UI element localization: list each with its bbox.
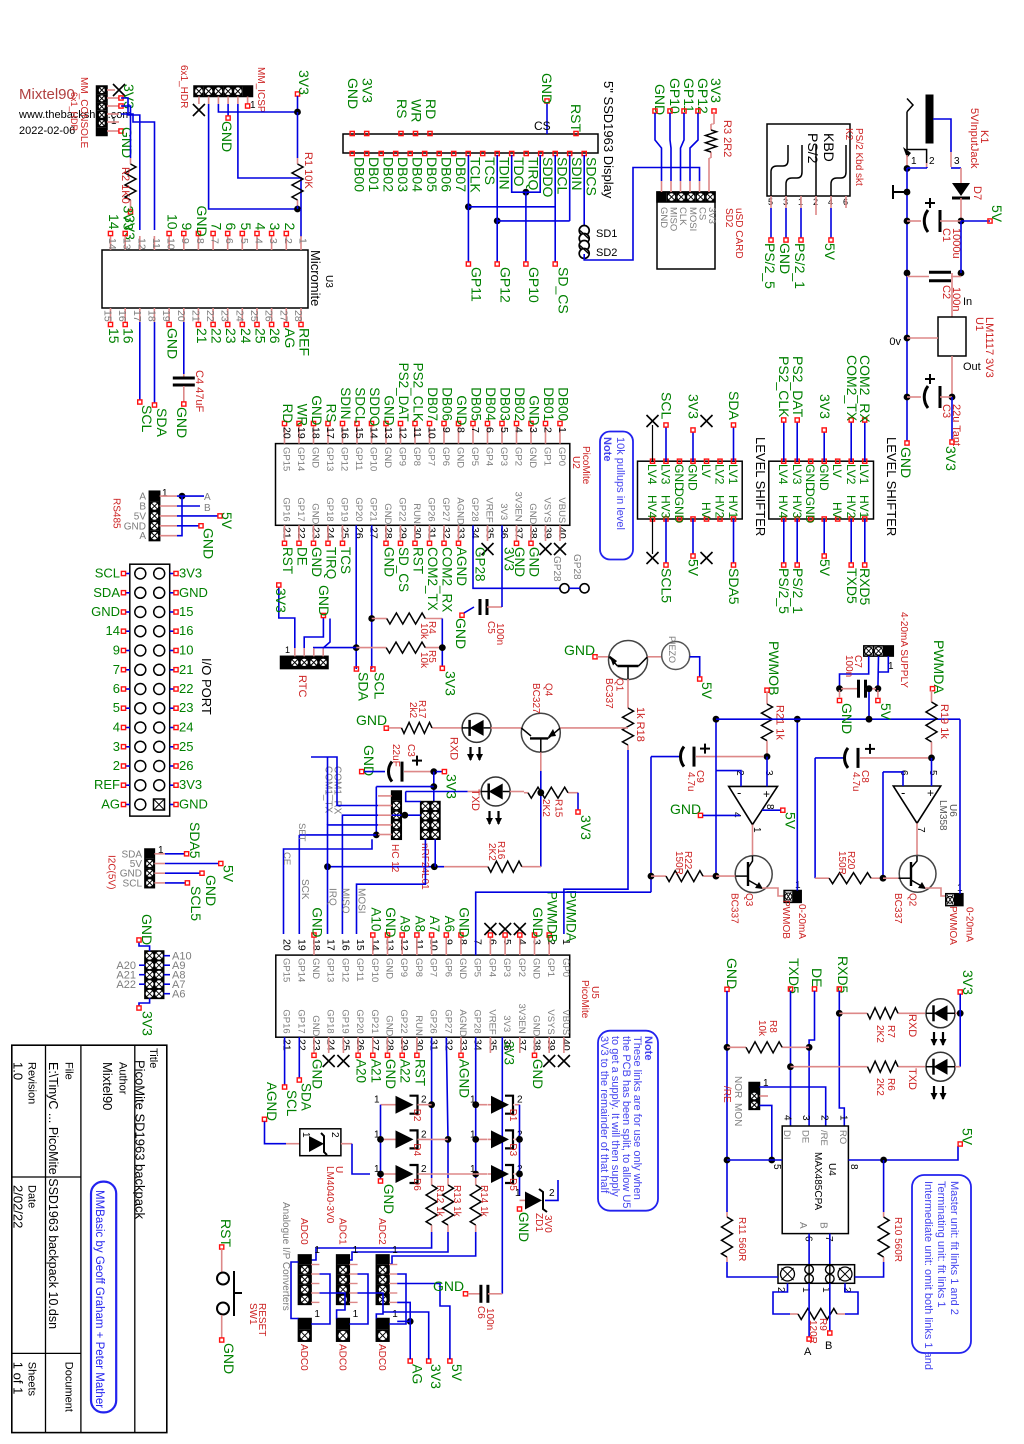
svg-text:20: 20 xyxy=(281,939,293,951)
svg-text:DB03: DB03 xyxy=(395,157,411,192)
svg-text:13: 13 xyxy=(382,427,394,439)
Q2 BC337 xyxy=(916,823,918,855)
svg-text:HV2: HV2 xyxy=(844,495,858,519)
svg-text:GP11: GP11 xyxy=(681,78,697,113)
svg-text:CE: CE xyxy=(281,852,292,865)
svg-text:3V3: 3V3 xyxy=(140,1011,156,1036)
svg-text:20: 20 xyxy=(281,427,293,439)
svg-text:WR: WR xyxy=(409,99,425,122)
svg-text:PS/2_5: PS/2_5 xyxy=(762,243,778,289)
NOR/MON jumper xyxy=(749,1083,759,1110)
svg-text:37: 37 xyxy=(513,527,525,539)
svg-text:LM4040-3V0: LM4040-3V0 xyxy=(324,1166,335,1224)
svg-text:LV4: LV4 xyxy=(645,464,659,485)
R10 560R xyxy=(883,1160,885,1212)
diode D4 xyxy=(393,1138,402,1140)
svg-text:26: 26 xyxy=(179,758,193,773)
I/O PORT 2x13 header xyxy=(130,564,170,816)
svg-text:U3: U3 xyxy=(323,275,334,288)
svg-text:33: 33 xyxy=(457,1039,469,1051)
svg-text:PWMDB: PWMDB xyxy=(545,891,560,943)
svg-text:VREF: VREF xyxy=(484,497,495,523)
link block xyxy=(778,1265,855,1284)
opamp U6b xyxy=(893,786,940,823)
ls1 bottom wires xyxy=(652,519,654,554)
svg-text:A: A xyxy=(804,1346,812,1358)
svg-text:GND: GND xyxy=(174,407,190,438)
U5 pin21 SCL xyxy=(284,1037,286,1085)
R21 1k xyxy=(766,692,768,704)
svg-text:GND: GND xyxy=(91,604,120,619)
svg-text:GND: GND xyxy=(530,907,545,937)
svg-text:DB05: DB05 xyxy=(469,387,484,421)
U3 pin18 SDA wire xyxy=(154,322,156,403)
opamp b inputs xyxy=(931,758,933,786)
U5 pin22 SDA xyxy=(298,1037,300,1078)
svg-text:GND: GND xyxy=(670,801,701,817)
svg-text:15: 15 xyxy=(354,939,366,951)
svg-text:DB01: DB01 xyxy=(366,157,382,192)
svg-text:GND: GND xyxy=(310,907,325,937)
svg-text:MM_CONSOLE: MM_CONSOLE xyxy=(78,77,89,148)
R11/R10 to links xyxy=(727,1262,778,1277)
HC12/nRF wires xyxy=(311,757,378,806)
svg-text:DGND: DGND xyxy=(803,488,817,524)
svg-text:9: 9 xyxy=(440,427,452,433)
svg-text:15: 15 xyxy=(106,328,122,344)
svg-text:2K2: 2K2 xyxy=(486,843,497,861)
svg-text:R3 2R2: R3 2R2 xyxy=(721,120,733,157)
svg-text:24: 24 xyxy=(179,720,193,735)
svg-text:4: 4 xyxy=(513,427,525,433)
svg-text:5: 5 xyxy=(238,223,254,231)
svg-text:3V3: 3V3 xyxy=(502,547,517,571)
svg-text:15: 15 xyxy=(179,604,193,619)
svg-text:SD2: SD2 xyxy=(596,247,617,259)
svg-text:GND: GND xyxy=(453,618,469,649)
svg-text:HV1: HV1 xyxy=(857,495,871,519)
svg-text:AG: AG xyxy=(282,328,298,348)
ground symbol xyxy=(892,185,894,199)
svg-text:GP4: GP4 xyxy=(486,958,497,977)
svg-text:Master unit: fit links 1 and 2: Master unit: fit links 1 and 2 xyxy=(948,1181,960,1315)
svg-text:10: 10 xyxy=(426,427,438,439)
svg-text:GP7: GP7 xyxy=(426,447,437,466)
level shifter 2 (PS2/COM2) xyxy=(769,461,874,519)
svg-text:DE: DE xyxy=(295,547,310,566)
svg-text:4: 4 xyxy=(782,1115,793,1121)
svg-text:GP1: GP1 xyxy=(542,447,553,466)
MM_ICSP 6x1 header xyxy=(194,86,253,97)
R9 120R xyxy=(773,1283,790,1314)
svg-text:GP12: GP12 xyxy=(339,447,350,471)
svg-text:3V3: 3V3 xyxy=(179,566,202,581)
svg-text:I/O PORT: I/O PORT xyxy=(199,658,214,715)
svg-text:R10 560R: R10 560R xyxy=(892,1217,903,1262)
svg-text:150R: 150R xyxy=(836,851,847,875)
svg-text:22uF: 22uF xyxy=(390,744,401,767)
svg-text:-: - xyxy=(901,785,905,800)
svg-text:3V0: 3V0 xyxy=(542,1215,553,1233)
capacitor C3 22u Tant xyxy=(904,394,911,401)
svg-text:5V: 5V xyxy=(686,559,702,577)
svg-text:GP22: GP22 xyxy=(398,1009,409,1033)
svg-text:NOR: NOR xyxy=(732,1076,743,1098)
svg-text:GND: GND xyxy=(165,328,181,359)
svg-text:VREF: VREF xyxy=(486,1009,497,1035)
svg-text:GND: GND xyxy=(455,447,466,468)
svg-text:R12 1k: R12 1k xyxy=(434,1185,445,1218)
svg-text:PS2_DAT: PS2_DAT xyxy=(790,356,806,418)
svg-text:U2: U2 xyxy=(570,456,581,469)
svg-text:10: 10 xyxy=(165,238,177,250)
svg-text:PS/2_1: PS/2_1 xyxy=(790,568,806,614)
svg-text:8: 8 xyxy=(848,1164,859,1170)
svg-text:GP6: GP6 xyxy=(442,958,453,977)
svg-text:REF: REF xyxy=(297,328,313,356)
svg-text:GND: GND xyxy=(724,958,740,989)
svg-text:GND: GND xyxy=(531,958,542,979)
U5 GP27 wire to R13 via D4 xyxy=(446,1037,448,1178)
svg-text:1: 1 xyxy=(162,488,168,499)
svg-text:GP26: GP26 xyxy=(428,1009,439,1033)
svg-text:GND: GND xyxy=(310,447,321,468)
PS/2 pin wires xyxy=(770,208,772,238)
note box: master unit xyxy=(912,1175,971,1353)
svg-text:RUN: RUN xyxy=(411,503,422,524)
svg-text:GP7: GP7 xyxy=(428,958,439,977)
svg-text:GND: GND xyxy=(139,914,155,945)
C9/R22 vertical xyxy=(650,757,652,893)
svg-text:GP8: GP8 xyxy=(411,447,422,466)
svg-text:3: 3 xyxy=(267,223,283,231)
svg-text:RST: RST xyxy=(568,104,584,132)
svg-text:GP13: GP13 xyxy=(325,958,336,982)
svg-text:1: 1 xyxy=(556,427,568,433)
svg-text:5: 5 xyxy=(501,939,513,945)
svg-text:GND: GND xyxy=(898,447,914,478)
svg-text:SCL: SCL xyxy=(139,405,155,432)
svg-text:LV3: LV3 xyxy=(790,464,804,485)
R6 2K2 + TXD LED xyxy=(791,1066,868,1068)
uSD card socket SD2 xyxy=(657,192,715,269)
display RST pin xyxy=(574,131,578,135)
svg-text:GND: GND xyxy=(433,1278,464,1294)
svg-text:26: 26 xyxy=(353,527,365,539)
svg-text:24: 24 xyxy=(233,310,245,322)
svg-text:Mixtel90: Mixtel90 xyxy=(19,86,75,103)
svg-text:LV: LV xyxy=(699,464,713,478)
svg-text:1: 1 xyxy=(392,1245,398,1256)
ADC jumper headers xyxy=(298,1319,311,1342)
svg-text:GND: GND xyxy=(119,127,135,158)
svg-text:A8: A8 xyxy=(412,916,427,933)
svg-text:VBUS: VBUS xyxy=(556,497,567,523)
svg-text:SCL: SCL xyxy=(123,878,143,889)
3V3 label xyxy=(951,397,953,440)
svg-text:VSYS: VSYS xyxy=(545,1009,556,1034)
svg-text:Revision: Revision xyxy=(26,1062,38,1104)
R4 10k pullup SCL xyxy=(368,615,375,622)
svg-text:23: 23 xyxy=(310,1039,322,1051)
RTC pin5 to SCL xyxy=(323,619,330,649)
svg-text:16: 16 xyxy=(179,623,193,638)
svg-text:DB00: DB00 xyxy=(352,157,368,192)
HC12 header xyxy=(392,791,402,839)
svg-text:SDA5: SDA5 xyxy=(187,822,203,859)
svg-text:GP3: GP3 xyxy=(501,958,512,977)
svg-text:27: 27 xyxy=(369,1039,381,1051)
svg-text:SDA: SDA xyxy=(93,585,120,600)
svg-text:5: 5 xyxy=(113,700,120,715)
svg-text:2: 2 xyxy=(282,238,294,244)
R22 150R xyxy=(651,875,666,877)
svg-text:A: A xyxy=(139,531,146,542)
svg-text:6x1_HDR: 6x1_HDR xyxy=(178,65,189,108)
svg-text:BC337: BC337 xyxy=(728,893,739,924)
svg-text:A22: A22 xyxy=(398,1059,413,1083)
svg-text:SD1: SD1 xyxy=(596,228,617,240)
svg-text:21: 21 xyxy=(179,662,193,677)
svg-text:10k: 10k xyxy=(418,623,429,640)
svg-text:25: 25 xyxy=(179,739,193,754)
svg-text:3V3: 3V3 xyxy=(296,70,312,95)
svg-text:16: 16 xyxy=(339,939,351,951)
svg-text:150R: 150R xyxy=(673,851,684,875)
svg-text:SDA: SDA xyxy=(726,391,742,420)
svg-text:TDIN: TDIN xyxy=(497,157,513,190)
svg-text:GP28: GP28 xyxy=(469,497,480,521)
svg-text:6: 6 xyxy=(486,939,498,945)
svg-text:LV4: LV4 xyxy=(776,464,790,485)
svg-text:LEVEL SHIFTER: LEVEL SHIFTER xyxy=(884,437,899,536)
svg-text:DI: DI xyxy=(781,1130,792,1140)
svg-text:1: 1 xyxy=(353,1245,359,1256)
svg-text:COM2_TX: COM2_TX xyxy=(425,547,440,611)
svg-text:GND: GND xyxy=(777,243,793,274)
svg-text:14: 14 xyxy=(106,238,118,250)
svg-text:100n: 100n xyxy=(494,623,505,645)
svg-text:TXD: TXD xyxy=(906,1068,918,1090)
svg-text:MAX485CPA: MAX485CPA xyxy=(812,1152,823,1211)
svg-text:3: 3 xyxy=(113,739,120,754)
RTC pin4 to SDA xyxy=(314,647,356,649)
R7 2K2 + RXD LED xyxy=(839,1012,867,1014)
svg-text:RS485: RS485 xyxy=(111,498,122,529)
svg-text:3V3: 3V3 xyxy=(708,78,724,103)
svg-text:Note: Note xyxy=(601,437,613,461)
svg-text:GP21: GP21 xyxy=(368,497,379,521)
svg-text:24: 24 xyxy=(325,1039,337,1051)
svg-text:5: 5 xyxy=(498,427,510,433)
svg-text:U4: U4 xyxy=(826,1163,837,1176)
ls2 bottom wires xyxy=(783,519,785,563)
svg-text:39: 39 xyxy=(542,527,554,539)
svg-text:PWMOB: PWMOB xyxy=(780,900,791,939)
svg-text:COM2_RX: COM2_RX xyxy=(440,547,455,612)
svg-text:3V3: 3V3 xyxy=(444,774,460,799)
diode D6 xyxy=(393,1173,402,1175)
svg-text:GP15: GP15 xyxy=(281,447,292,471)
svg-text:HV2: HV2 xyxy=(713,495,727,519)
svg-text:RST: RST xyxy=(411,547,426,574)
U4 MAX485CPA xyxy=(782,1126,848,1234)
svg-text:6x1_HDR: 6x1_HDR xyxy=(69,92,79,132)
console pin wires xyxy=(107,89,115,91)
svg-text:RXD: RXD xyxy=(906,1014,918,1037)
svg-text:In: In xyxy=(963,296,972,308)
svg-text:GND: GND xyxy=(539,73,555,104)
svg-text:5V: 5V xyxy=(817,559,833,577)
svg-text:23: 23 xyxy=(310,527,322,539)
svg-text:2K2: 2K2 xyxy=(540,799,551,817)
svg-text:GND: GND xyxy=(658,207,669,228)
svg-text:3V3: 3V3 xyxy=(498,503,509,520)
svg-text:GP10: GP10 xyxy=(526,267,542,303)
svg-text:GND: GND xyxy=(309,395,324,425)
svg-text:GP14: GP14 xyxy=(295,447,306,471)
svg-text:Sheets: Sheets xyxy=(26,1362,38,1397)
svg-text:VBUS: VBUS xyxy=(560,1009,571,1035)
svg-text:GND: GND xyxy=(310,503,321,524)
svg-text:GP28: GP28 xyxy=(473,547,488,582)
C5 100n decoupling xyxy=(460,613,464,617)
svg-text:10: 10 xyxy=(165,214,181,230)
ADC input headers xyxy=(298,1255,311,1305)
svg-text:CLK: CLK xyxy=(677,207,688,226)
svg-text:GP26: GP26 xyxy=(426,497,437,521)
svg-text:12: 12 xyxy=(398,939,410,951)
svg-text:HV4: HV4 xyxy=(776,495,790,519)
svg-text:uSD CARD: uSD CARD xyxy=(733,208,744,259)
svg-text:8: 8 xyxy=(764,804,775,810)
nRF24L01 header xyxy=(421,802,440,840)
R12 R13 R14 1k xyxy=(431,1178,433,1185)
svg-text:1: 1 xyxy=(285,645,290,655)
svg-text:14: 14 xyxy=(368,427,380,439)
svg-text:GND: GND xyxy=(310,1015,321,1036)
svg-text:25: 25 xyxy=(339,1039,351,1051)
U3 pin20 to C4 xyxy=(183,322,185,374)
svg-text:6: 6 xyxy=(223,223,239,231)
U5 GP28 wire to R14 via D6 xyxy=(475,1037,477,1178)
svg-text:28: 28 xyxy=(382,527,394,539)
svg-text:5: 5 xyxy=(238,238,250,244)
svg-text:18: 18 xyxy=(310,939,322,951)
svg-text:4: 4 xyxy=(253,223,269,231)
svg-text:SDA: SDA xyxy=(299,1083,314,1111)
svg-text:23: 23 xyxy=(219,310,231,322)
svg-text:22: 22 xyxy=(295,1039,307,1051)
svg-text:Intermediate unit: omit both l: Intermediate unit: omit both links 1 and xyxy=(922,1181,934,1370)
svg-text:MOSI: MOSI xyxy=(355,888,366,914)
svg-text:C4 47uF: C4 47uF xyxy=(193,370,205,412)
svg-text:2: 2 xyxy=(282,223,298,231)
diode left rail D2-D6 xyxy=(381,1104,393,1106)
svg-text:PWMOB: PWMOB xyxy=(766,641,782,695)
svg-text:DB04: DB04 xyxy=(483,387,498,421)
svg-text:GP19: GP19 xyxy=(339,497,350,521)
svg-text:3V3: 3V3 xyxy=(428,1364,444,1389)
svg-text:Q2: Q2 xyxy=(907,893,918,907)
svg-text:DB02: DB02 xyxy=(512,387,527,421)
svg-text:R8: R8 xyxy=(767,1020,778,1033)
svg-text:5V: 5V xyxy=(782,812,798,830)
svg-text:GP11: GP11 xyxy=(353,447,364,471)
svg-text:PicoMite: PicoMite xyxy=(580,446,591,485)
TXD LED xyxy=(406,791,468,793)
svg-text:CS: CS xyxy=(534,119,551,133)
svg-text:GP13: GP13 xyxy=(324,447,335,471)
wire to U3 pin1 xyxy=(300,209,302,237)
svg-text:GP17: GP17 xyxy=(295,1009,306,1033)
U3 pin17 SCL wire xyxy=(139,322,141,400)
display CS pin to GND xyxy=(546,103,548,134)
svg-text:21: 21 xyxy=(194,328,210,344)
svg-text:2: 2 xyxy=(819,1115,830,1121)
svg-text:-: - xyxy=(737,785,741,800)
svg-text:AGND: AGND xyxy=(455,497,466,525)
svg-text:SDA5: SDA5 xyxy=(726,568,742,605)
svg-text:GND: GND xyxy=(221,1343,237,1374)
svg-text:GND: GND xyxy=(179,797,208,812)
svg-text:GND: GND xyxy=(383,1059,398,1089)
svg-text:19: 19 xyxy=(295,427,307,439)
svg-text:AG: AG xyxy=(101,797,120,812)
svg-text:PS/2_1: PS/2_1 xyxy=(792,243,808,289)
svg-text:A21: A21 xyxy=(368,1059,383,1083)
svg-text:Date: Date xyxy=(26,1185,38,1208)
svg-text:GND: GND xyxy=(310,958,321,979)
svg-text:9: 9 xyxy=(442,939,454,945)
svg-text:GND: GND xyxy=(527,503,538,524)
svg-text:SCK: SCK xyxy=(299,879,310,900)
svg-text:GP2: GP2 xyxy=(513,447,524,466)
U5 pin36 3V3 to C6 xyxy=(501,1037,503,1294)
svg-text:34: 34 xyxy=(472,1039,484,1051)
svg-text:39: 39 xyxy=(545,1039,557,1051)
svg-text:DB04: DB04 xyxy=(410,157,426,192)
svg-text:GND: GND xyxy=(672,464,686,491)
svg-text:HC 12: HC 12 xyxy=(389,844,400,873)
svg-text:RD: RD xyxy=(423,99,439,119)
svg-text:1: 1 xyxy=(250,100,256,111)
svg-text:GP3: GP3 xyxy=(498,447,509,466)
ADC interconnect wires xyxy=(311,1264,319,1266)
svg-text:GND: GND xyxy=(382,447,393,468)
svg-text:11: 11 xyxy=(411,427,423,438)
regulator U1 LM1117-3V3 xyxy=(951,273,953,317)
svg-text:Author: Author xyxy=(117,1062,129,1095)
svg-text:A6: A6 xyxy=(172,989,185,1001)
U3 Micromite DIP-28 xyxy=(102,250,308,308)
svg-text:A10: A10 xyxy=(368,907,383,931)
svg-text:2: 2 xyxy=(542,427,554,433)
svg-text:ADC0: ADC0 xyxy=(376,1344,387,1371)
svg-text:GND: GND xyxy=(454,395,469,425)
svg-text:HV: HV xyxy=(830,502,844,519)
svg-text:3V3: 3V3 xyxy=(943,446,959,471)
svg-text:17: 17 xyxy=(325,939,337,951)
svg-text:+: + xyxy=(927,786,934,800)
svg-text:4-20mA SUPPLY: 4-20mA SUPPLY xyxy=(898,612,909,688)
U2 PicoMite DIP-40 xyxy=(276,444,570,526)
svg-text:7: 7 xyxy=(472,939,484,945)
svg-text:GND: GND xyxy=(817,464,831,491)
C8 4.7u xyxy=(815,757,845,759)
svg-text:GP19: GP19 xyxy=(339,1009,350,1033)
svg-text:SCL: SCL xyxy=(659,392,675,419)
